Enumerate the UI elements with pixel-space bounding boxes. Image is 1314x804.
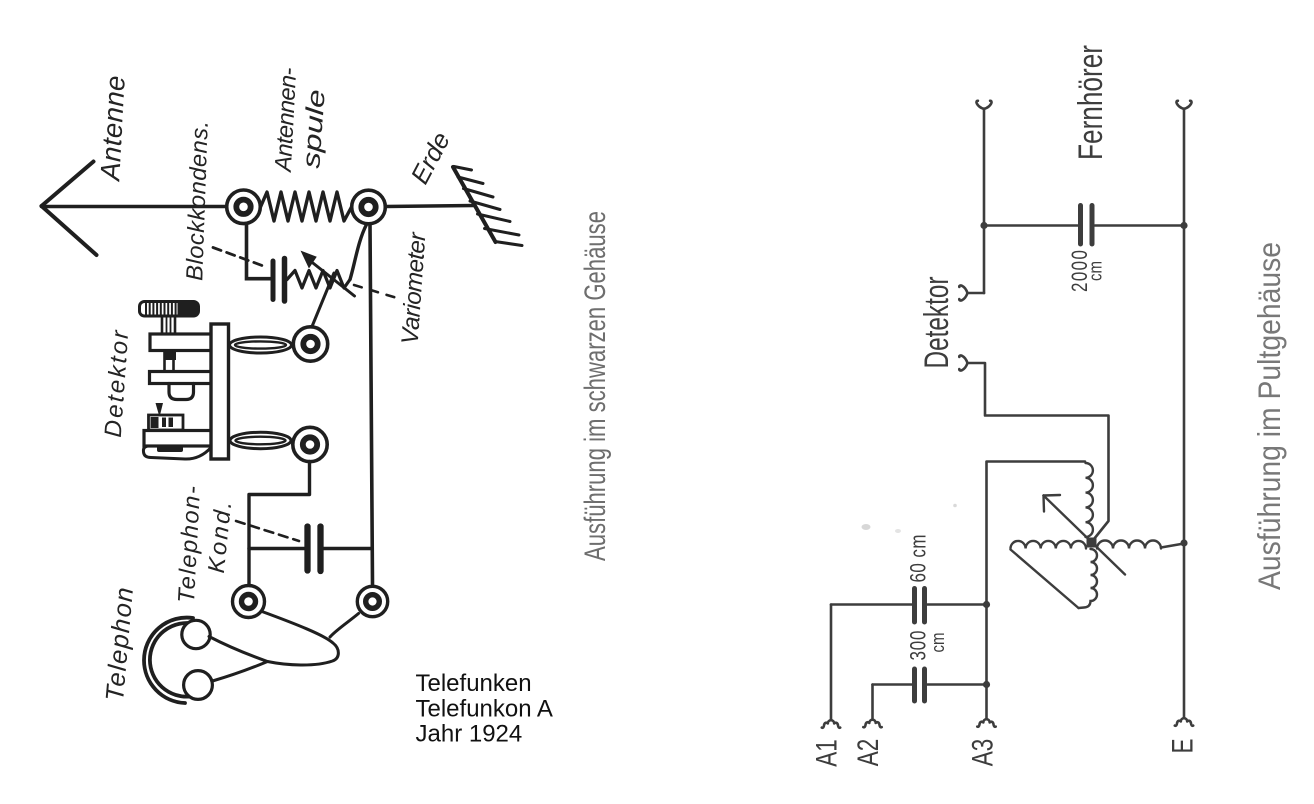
- wire capacitor 2000cm left lead: [984, 224, 1078, 227]
- capacitor 2000cm: [1081, 206, 1093, 245]
- svg-text:Detektor: Detektor: [918, 276, 957, 368]
- svg-text:Antenne: Antenne: [94, 75, 131, 183]
- svg-text:cm: cm: [1085, 261, 1106, 281]
- binding post C2: [352, 190, 386, 224]
- wire C1 down to blocking capacitor: [247, 224, 272, 279]
- tap wire to C3: [312, 273, 334, 327]
- svg-text:Telefunken: Telefunken: [416, 670, 532, 697]
- wire stator top to A3 bus: [987, 462, 1086, 720]
- wire capacitor 300cm left lead: [873, 683, 912, 686]
- junction dot: [983, 601, 990, 608]
- variometer coil bottom winding: [1079, 549, 1098, 608]
- headphone earpiece top: [182, 620, 210, 648]
- binding post C5: [357, 586, 387, 616]
- dashed leader Variometer: [354, 285, 397, 298]
- svg-text:E: E: [1166, 738, 1200, 753]
- variometer coil right winding: [1097, 541, 1161, 549]
- dashed leader Blockkondens: [213, 248, 264, 267]
- svg-text:Antennen-: Antennen-: [270, 67, 302, 174]
- wire to earth: [386, 206, 474, 207]
- paper smudge: [862, 504, 957, 533]
- terminal Detektor 2: [959, 355, 967, 370]
- variometer adjust arrow: [302, 252, 355, 297]
- telephone capacitor wire: [249, 547, 305, 550]
- svg-text:A1: A1: [810, 739, 844, 767]
- terminal Detektor 1: [959, 285, 967, 300]
- junction dot: [983, 681, 990, 688]
- terminal E: [1175, 718, 1193, 726]
- wire capacitor 60cm right lead: [928, 603, 987, 606]
- binding post C7: [293, 427, 327, 461]
- svg-text:Ausführung im schwarzen Gehäus: Ausführung im schwarzen Gehäuse: [580, 211, 612, 561]
- wire antenna lead-in: [42, 205, 228, 209]
- variometer arrow: [1044, 495, 1126, 575]
- headphone cord: [209, 612, 359, 682]
- wire capacitor 60cm left lead: [831, 603, 912, 606]
- wire Detektor terminal 1: [968, 292, 985, 295]
- variometer coil top winding: [1086, 463, 1093, 537]
- terminal Fernhoerer 1: [976, 101, 991, 109]
- capacitor Telephon-Kond: [308, 527, 321, 572]
- headphone headband: [144, 618, 195, 703]
- antenna coil L1 Antennenspule: [261, 192, 352, 221]
- svg-text:cm: cm: [927, 633, 948, 653]
- wire C7 to telephone capacitor: [249, 462, 310, 585]
- wire E bus vertical: [1183, 109, 1186, 718]
- caption Telefunken Telefunkon A Jahr 1924: [416, 670, 553, 748]
- svg-text:A3: A3: [966, 739, 1000, 767]
- svg-text:Jahr 1924: Jahr 1924: [416, 721, 523, 748]
- wire A1 vertical: [830, 605, 833, 720]
- variometer coil left winding: [1011, 541, 1086, 549]
- wire right winding to E bus: [1161, 544, 1184, 548]
- wire coil to C2: [350, 225, 367, 280]
- svg-text:spule: spule: [297, 89, 330, 170]
- terminal A2: [863, 720, 881, 728]
- junction dot: [1180, 222, 1187, 229]
- terminal A1: [822, 720, 840, 728]
- terminal A3: [977, 719, 995, 727]
- terminal Fernhoerer 2: [1176, 101, 1191, 109]
- right diagram labels: [810, 45, 1200, 767]
- antenna arrow: [42, 162, 97, 256]
- svg-text:Fernhörer: Fernhörer: [1072, 45, 1111, 160]
- wire A2 vertical: [871, 685, 874, 720]
- coupling coil zigzag: [287, 271, 350, 289]
- svg-text:A2: A2: [851, 739, 885, 767]
- left diagram labels: [94, 67, 456, 703]
- variometer center junction: [1087, 538, 1097, 548]
- detector crystal holder drawing: [140, 301, 292, 459]
- wire C2 down: [370, 225, 373, 585]
- wire Detektor 2 to variometer rotor: [968, 363, 1109, 542]
- binding post C4: [233, 586, 265, 618]
- headphone earpiece bottom: [184, 671, 213, 700]
- wire capacitor 2000cm right lead: [1095, 224, 1184, 227]
- capacitor 60cm: [915, 589, 925, 623]
- svg-text:60 cm: 60 cm: [906, 535, 931, 583]
- svg-text:Telefunkon A: Telefunkon A: [416, 696, 553, 723]
- ground symbol Erde: [453, 167, 522, 246]
- LEFT DIAGRAM: [42, 162, 523, 585]
- wire rotor return diagonal: [1011, 550, 1079, 609]
- capacitor Blockkondensator: [273, 259, 285, 302]
- capacitor 300cm: [915, 669, 925, 701]
- junction dot: [1180, 539, 1187, 546]
- svg-text:Ausführung im Pultgehäuse: Ausführung im Pultgehäuse: [1252, 242, 1287, 590]
- wire capacitor 300cm right lead: [928, 683, 987, 686]
- binding post C3: [293, 327, 327, 361]
- dashed leader Telephon-Kond: [236, 521, 299, 541]
- wire Fernhoerer 1 down: [983, 109, 986, 294]
- binding post C1: [227, 190, 261, 224]
- junction dot: [980, 222, 987, 229]
